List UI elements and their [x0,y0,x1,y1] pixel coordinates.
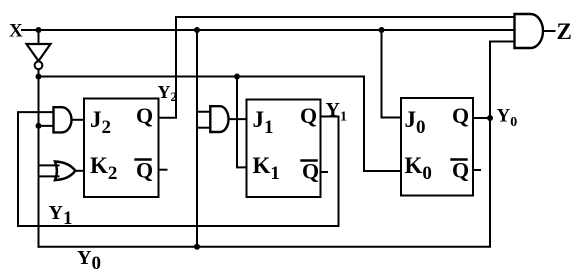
flip-flop FF0 box [401,98,473,196]
overbar of Qbar FF2 [136,158,151,160]
svg-text:J1: J1 [253,107,274,138]
svg-text:Q: Q [302,159,319,184]
wire: X branch down into J0 [382,30,402,118]
wire: X branch down into AND G3 top input [197,30,210,112]
svg-text:J0: J0 [405,107,426,138]
junction dot on X' line feeding K1 [234,74,240,80]
wire: X' down into K0 [364,77,401,172]
wire: G3 output to J1 [229,118,247,120]
svg-text:Q: Q [300,103,317,128]
svg-text:K2: K2 [90,153,117,184]
junction dot on Y0 feedback line feeding G3 [194,244,200,250]
svg-text:Y1: Y1 [49,202,73,229]
svg-text:K0: K0 [405,153,432,184]
svg-text:Y2: Y2 [158,82,178,104]
wire: FF0 Qbar stub [473,169,480,171]
svg-text:Y1: Y1 [326,99,347,125]
svg-text:Q: Q [452,103,469,128]
wire: Y0 stub into AND G4 [490,41,515,43]
svg-text:Q: Q [452,158,469,183]
svg-text:J2: J2 [90,107,111,138]
junction dot at FF0 Q output [487,115,493,121]
wire: X' branch into AND G1 lower input [39,125,54,127]
svg-text:Q: Q [136,158,153,183]
svg-text:Q: Q [136,103,153,128]
junction dot on X line feeding J1 AND gate [194,27,200,33]
wire: G2 output to K2 [75,170,84,172]
wire: Y0 branch into OR G2 lower input [39,175,59,177]
AND gate G3 feeding J1 [210,106,228,132]
svg-text:Z: Z [557,19,572,44]
wire: X' horizontal line to K0 corner [39,76,365,78]
svg-text:X: X [9,21,23,42]
wire: FF2 Qbar stub [159,169,167,171]
wire: stub from X line into inverter [38,30,40,44]
overbar of Qbar FF0 [452,158,467,160]
inverter U1 output bubble [35,61,43,69]
wire: FF2 Q output (Y2) up to top line [159,17,515,118]
wire: G1 output to J2 [72,119,85,121]
AND gate G4 producing Z [515,14,544,48]
wire: G3 bottom input stub [197,127,210,129]
wire: inverter output vertical down to Y0 feedback line [38,69,40,247]
junction dot on X line feeding J0 [379,27,385,33]
wire: FF0 Q output to Y0 vertical [473,117,490,119]
flip-flop FF1 box [247,100,321,198]
junction dot at inverter output branch [36,74,42,80]
wire: X' branch into OR G2 upper input [39,164,59,166]
wire: FF1 Qbar stub [321,171,328,173]
wire: X' branch down into K1 [237,77,247,168]
wire: FF1 Q output (Y1) down to feedback line [18,117,339,227]
wire: Y1 feedback left vertical [18,112,54,226]
wire: G4 output to Z [543,30,555,32]
wire: Y0 vertical from AND G4 input down to feedback line [39,42,491,247]
AND gate G1 feeding J2 [54,107,72,132]
junction dot on X line above inverter [36,27,42,33]
wire: X input horizontal line to AND gate G4 [22,29,515,31]
inverter U1 triangle [27,44,51,61]
svg-text:Y0: Y0 [497,106,518,131]
svg-text:Y0: Y0 [77,247,101,274]
OR gate G2 feeding K2 [55,162,75,181]
junction dot on X' vertical feeding AND G1 [36,123,42,129]
overbar of Qbar FF1 [302,159,317,161]
svg-text:K1: K1 [253,153,280,184]
wire: Y0 feedback up into AND G3 bottom input [196,112,198,247]
flip-flop FF2 box [84,99,159,198]
